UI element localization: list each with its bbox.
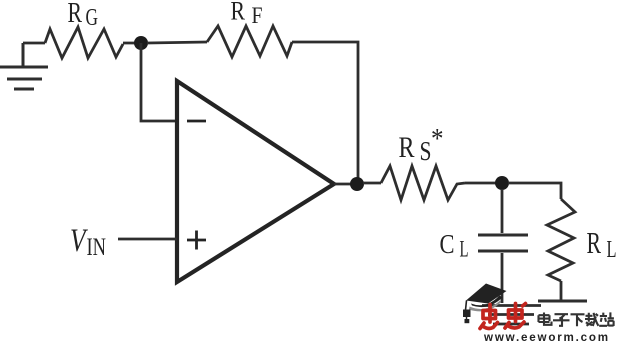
wire VIN to plus input: [118, 238, 177, 241]
node A (junction of RG, RF, inverting input): [134, 36, 148, 50]
watermark graduation-cap logo: [463, 284, 507, 324]
wire RG to node A: [123, 42, 141, 45]
label RG: [68, 0, 99, 31]
node B (op-amp output junction): [350, 177, 364, 191]
wire CL to ground: [501, 253, 504, 303]
wire ground to RG: [23, 42, 45, 45]
ground (under CL): [482, 306, 541, 325]
resistor RF: [207, 26, 292, 57]
label CL: [440, 228, 469, 262]
wire op-amp apex to output node: [334, 183, 352, 186]
watermark text dianzi xiazaizhan: [539, 312, 614, 326]
capacitor CL: [478, 235, 528, 251]
watermark red text chongchong: [480, 304, 526, 329]
resistor RS: [381, 166, 465, 200]
node C (junction of RS, CL, RL): [495, 176, 509, 190]
label RF: [231, 0, 263, 28]
wire node C to RL corner: [508, 183, 561, 199]
label RL: [587, 225, 617, 263]
wire node A down to inverting input: [141, 43, 177, 121]
svg-text:S: S: [420, 136, 432, 166]
wire RS to node C: [465, 182, 496, 185]
svg-text:G: G: [86, 5, 99, 31]
wire RF to output node (top rail and right vertical): [292, 42, 358, 183]
wire node C down to CL: [501, 189, 504, 233]
label RS*: [399, 123, 444, 166]
op-amp U1: [177, 81, 334, 282]
wire node B to RS: [363, 182, 381, 185]
ground (top-left, input ground): [0, 43, 48, 89]
wire node A to RF: [147, 42, 207, 43]
svg-text:F: F: [252, 3, 263, 28]
svg-text:R: R: [68, 0, 83, 29]
ground (under RL): [538, 300, 587, 303]
svg-text:C: C: [440, 228, 455, 259]
svg-text:L: L: [460, 237, 469, 262]
watermark url www.eeworm.com: [483, 331, 610, 343]
svg-text:IN: IN: [87, 234, 107, 261]
svg-text:*: *: [431, 123, 444, 155]
resistor RG: [45, 27, 123, 58]
resistor RL: [547, 199, 575, 281]
wire RL to ground: [560, 281, 563, 300]
op-amp minus sign: [187, 120, 206, 123]
label VIN: [70, 223, 106, 261]
svg-text:R: R: [399, 131, 415, 164]
svg-text:R: R: [231, 0, 246, 26]
svg-text:L: L: [607, 237, 617, 263]
op-amp plus sign: [187, 231, 206, 250]
svg-text:R: R: [587, 225, 602, 260]
svg-text:www.eeworm.com: www.eeworm.com: [483, 331, 610, 343]
